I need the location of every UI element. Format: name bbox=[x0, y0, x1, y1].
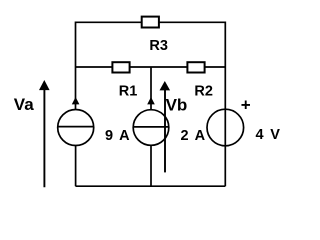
node voltage arrow Va head bbox=[39, 80, 50, 90]
svg-text:9 A: 9 A bbox=[105, 128, 131, 144]
wire middle vertical lower bbox=[150, 145, 152, 186]
wire right vertical upper bbox=[224, 22, 226, 111]
wire middle rail bbox=[76, 66, 226, 68]
wire left vertical upper bbox=[75, 22, 77, 68]
svg-text:R3: R3 bbox=[149, 38, 168, 54]
voltage source V1 circle bbox=[207, 109, 244, 146]
svg-text:4 V: 4 V bbox=[256, 127, 282, 143]
wire left branch to source bbox=[75, 67, 77, 110]
current source I2 chord bbox=[133, 126, 169, 128]
svg-text:R2: R2 bbox=[194, 83, 213, 99]
wire bottom rail bbox=[76, 185, 226, 187]
resistor R2 bbox=[187, 62, 204, 72]
resistor R1 bbox=[112, 62, 129, 72]
wire right branch through source bbox=[224, 110, 226, 186]
current source I1 circle bbox=[58, 110, 94, 146]
current source I2 arrow bbox=[147, 97, 155, 104]
svg-text:+: + bbox=[241, 96, 251, 115]
current source I1 arrow bbox=[72, 97, 80, 104]
node voltage arrow Vb shaft bbox=[164, 88, 166, 172]
svg-text:R1: R1 bbox=[119, 83, 138, 99]
node voltage arrow Va shaft bbox=[43, 88, 45, 187]
wire top rail bbox=[76, 21, 226, 23]
svg-text:Va: Va bbox=[14, 95, 34, 114]
current source I2 circle bbox=[133, 110, 169, 146]
wire middle branch junction bbox=[150, 67, 152, 110]
svg-text:2 A: 2 A bbox=[181, 128, 207, 144]
current source I1 chord bbox=[58, 126, 94, 128]
node voltage arrow Vb head bbox=[160, 81, 171, 90]
wire left vertical lower bbox=[75, 145, 77, 186]
svg-text:Vb: Vb bbox=[166, 96, 188, 115]
resistor R3 bbox=[142, 17, 159, 28]
